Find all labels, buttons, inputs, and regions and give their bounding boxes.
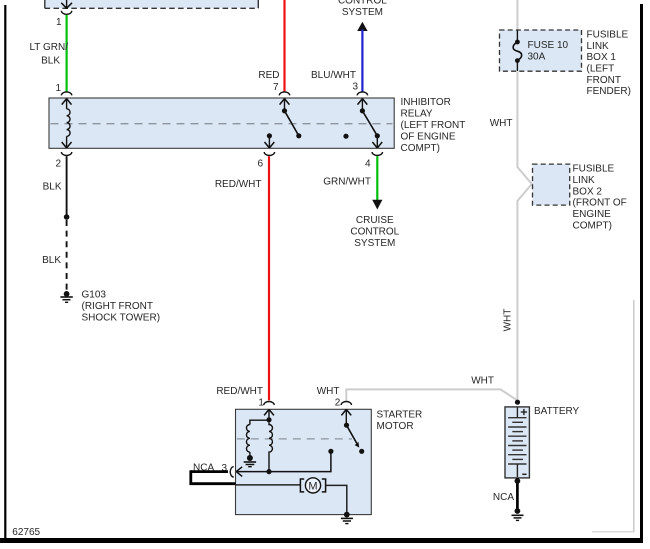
svg-text:LINK: LINK [587, 41, 610, 52]
svg-text:LT GRN/: LT GRN/ [29, 42, 68, 53]
svg-text:30A: 30A [528, 52, 546, 63]
svg-text:NCA: NCA [493, 492, 514, 503]
svg-text:(LEFT FRONT: (LEFT FRONT [401, 120, 466, 131]
svg-text:CONTROL: CONTROL [338, 0, 387, 6]
svg-text:1: 1 [55, 83, 61, 94]
svg-text:FUSIBLE: FUSIBLE [587, 30, 629, 41]
svg-text:1: 1 [56, 17, 62, 28]
svg-text:1: 1 [258, 398, 264, 409]
svg-text:WHT: WHT [317, 386, 340, 397]
svg-text:RED/WHT: RED/WHT [215, 179, 262, 190]
svg-text:MOTOR: MOTOR [377, 421, 414, 432]
svg-text:BOX 2: BOX 2 [573, 186, 603, 197]
svg-text:COMPT): COMPT) [401, 143, 440, 154]
svg-text:FRONT: FRONT [587, 75, 621, 86]
svg-text:SYSTEM: SYSTEM [342, 7, 383, 18]
svg-text:CONTROL: CONTROL [350, 227, 399, 238]
svg-text:7: 7 [273, 82, 279, 93]
svg-text:WHT: WHT [490, 118, 513, 129]
svg-text:BLK: BLK [43, 181, 62, 192]
svg-text:BLK: BLK [42, 255, 61, 266]
svg-text:OF ENGINE: OF ENGINE [401, 131, 456, 142]
svg-text:SHOCK TOWER): SHOCK TOWER) [82, 312, 161, 323]
svg-text:WHT: WHT [471, 376, 494, 387]
svg-text:6: 6 [257, 158, 263, 169]
svg-text:M: M [308, 480, 317, 492]
svg-text:(LEFT: (LEFT [587, 64, 615, 75]
svg-text:(RIGHT FRONT: (RIGHT FRONT [82, 301, 153, 312]
svg-text:62765: 62765 [12, 527, 40, 538]
svg-text:BOX 1: BOX 1 [587, 52, 617, 63]
svg-text:SYSTEM: SYSTEM [354, 238, 395, 249]
svg-text:FUSE 10: FUSE 10 [528, 40, 569, 51]
svg-text:GRN/WHT: GRN/WHT [323, 176, 371, 187]
svg-text:BLU/WHT: BLU/WHT [311, 70, 356, 81]
svg-text:ENGINE: ENGINE [573, 209, 612, 220]
svg-text:RED: RED [258, 70, 279, 81]
svg-text:RED/WHT: RED/WHT [216, 386, 263, 397]
svg-text:COMPT): COMPT) [573, 221, 612, 232]
svg-text:INHIBITOR: INHIBITOR [401, 97, 451, 108]
svg-text:(FRONT OF: (FRONT OF [573, 198, 627, 209]
svg-text:4: 4 [365, 158, 371, 169]
svg-text:BLK: BLK [41, 56, 60, 67]
svg-text:BATTERY: BATTERY [534, 406, 580, 417]
svg-text:G103: G103 [82, 290, 107, 301]
svg-text:RELAY: RELAY [401, 109, 433, 120]
svg-text:FENDER): FENDER) [587, 86, 631, 97]
svg-text:2: 2 [335, 398, 341, 409]
svg-text:2: 2 [55, 158, 61, 169]
svg-text:STARTER: STARTER [377, 409, 423, 420]
svg-text:LINK: LINK [573, 175, 596, 186]
svg-text:FUSIBLE: FUSIBLE [573, 164, 615, 175]
svg-text:WHT: WHT [503, 309, 514, 332]
svg-text:3: 3 [352, 81, 358, 92]
svg-text:CRUISE: CRUISE [356, 215, 394, 226]
